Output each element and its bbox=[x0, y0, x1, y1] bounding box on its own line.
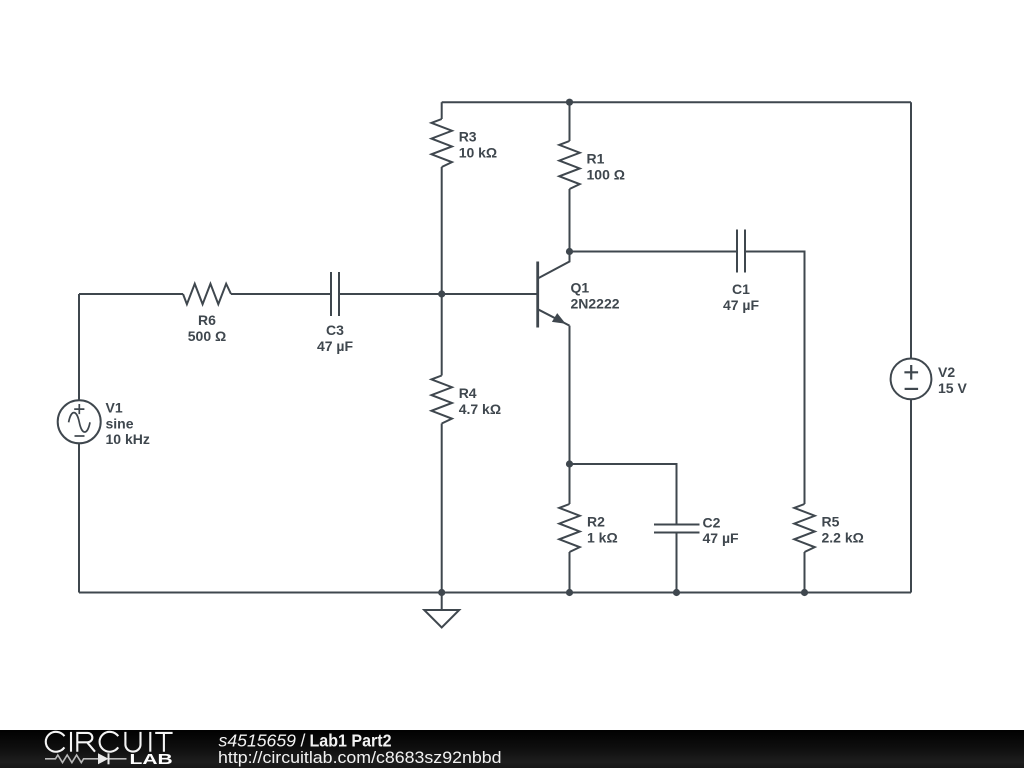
svg-text:2.2 kΩ: 2.2 kΩ bbox=[822, 530, 864, 546]
svg-text:1 kΩ: 1 kΩ bbox=[587, 530, 618, 546]
svg-text:R1: R1 bbox=[587, 151, 605, 167]
svg-text:47 µF: 47 µF bbox=[317, 338, 354, 354]
svg-text:47 µF: 47 µF bbox=[723, 297, 760, 313]
svg-text:R4: R4 bbox=[459, 385, 477, 401]
svg-text:C3: C3 bbox=[326, 322, 344, 338]
svg-text:V2: V2 bbox=[938, 364, 955, 380]
svg-text:http://circuitlab.com/c8683sz9: http://circuitlab.com/c8683sz92nbbd bbox=[218, 748, 502, 767]
svg-text:500 Ω: 500 Ω bbox=[188, 328, 226, 344]
svg-text:4.7 kΩ: 4.7 kΩ bbox=[459, 401, 501, 417]
svg-text:V1: V1 bbox=[106, 400, 123, 416]
svg-text:sine: sine bbox=[106, 416, 134, 432]
svg-text:R2: R2 bbox=[587, 514, 605, 530]
svg-text:Q1: Q1 bbox=[571, 280, 590, 296]
svg-text:100 Ω: 100 Ω bbox=[587, 167, 625, 183]
svg-text:C1: C1 bbox=[732, 281, 750, 297]
svg-text:R3: R3 bbox=[459, 129, 477, 145]
svg-text:LAB: LAB bbox=[130, 752, 173, 768]
svg-text:2N2222: 2N2222 bbox=[571, 296, 620, 312]
svg-text:R6: R6 bbox=[198, 312, 216, 328]
svg-text:15 V: 15 V bbox=[938, 380, 967, 396]
svg-text:47 µF: 47 µF bbox=[703, 530, 740, 546]
svg-text:C2: C2 bbox=[703, 515, 721, 531]
svg-text:10 kΩ: 10 kΩ bbox=[459, 145, 497, 161]
svg-text:R5: R5 bbox=[822, 514, 840, 530]
svg-text:10 kHz: 10 kHz bbox=[106, 431, 150, 447]
